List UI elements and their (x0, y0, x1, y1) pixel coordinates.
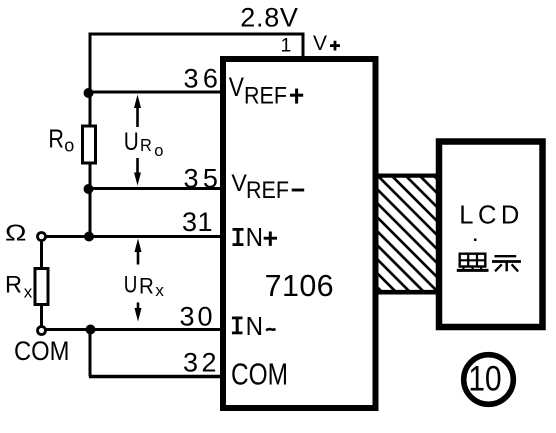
IC U1 7106 box (223, 59, 376, 408)
pin name IN+ (233, 224, 278, 252)
svg-text:R: R (5, 272, 22, 299)
svg-text:R: R (48, 123, 64, 153)
svg-text:R: R (140, 135, 152, 155)
pin name IN- (232, 313, 276, 341)
pin name VREF+ (229, 72, 303, 109)
pin number 30 (180, 302, 216, 332)
pin number 35 (184, 164, 223, 194)
pin number 36 (184, 64, 223, 94)
svg-text:32: 32 (183, 348, 220, 378)
label Rx (5, 272, 33, 302)
LCD display box (439, 142, 543, 328)
voltage arrow U_Rx (double arrow) (135, 239, 142, 322)
label Chinese "shi" (display) drawn strokes (492, 256, 521, 271)
node junction at VREF- wire (84, 184, 94, 194)
scan speck (474, 239, 477, 242)
hatched connector block (flex cable) (261, 171, 556, 321)
svg-text:35: 35 (184, 164, 223, 194)
resistor R0 (83, 126, 96, 163)
figure number 10 (circled) (464, 355, 514, 405)
label Ohm (5, 220, 27, 246)
svg-text:o: o (64, 135, 74, 155)
pin name VREF- (231, 170, 304, 204)
svg-text:10: 10 (468, 359, 502, 398)
label U_Rx (124, 271, 165, 300)
wire pin 32 (COM) (89, 375, 221, 379)
wire Rx branch vertical (40, 239, 43, 328)
svg-text:Ω: Ω (5, 220, 27, 246)
wire pin 35 (VREF-) (89, 187, 221, 190)
svg-text:x: x (155, 281, 164, 300)
terminal COM (open circle) (38, 327, 46, 335)
svg-text:U: U (124, 128, 139, 156)
svg-text:R: R (139, 274, 154, 299)
svg-text:31: 31 (182, 207, 213, 237)
label 2.8V (240, 2, 298, 32)
wire COM branch vertical (89, 330, 92, 377)
pin name COM (231, 358, 288, 392)
svg-text:36: 36 (184, 64, 223, 94)
svg-text:30: 30 (180, 302, 216, 332)
wire V+ supply (top) (90, 34, 303, 58)
label LCD (459, 201, 524, 229)
svg-text:N: N (246, 224, 263, 252)
wire pin 30 (IN-) (44, 328, 221, 331)
svg-text:1: 1 (281, 34, 292, 56)
node junction at IN+ wire (84, 232, 94, 242)
svg-text:COM: COM (14, 336, 70, 366)
svg-text:V: V (231, 170, 247, 197)
label Chinese "xian" (display) drawn strokes (457, 254, 489, 271)
pin label V+ (313, 32, 340, 55)
wire pin 31 (IN+) (44, 235, 221, 238)
label COM (left terminal) (14, 336, 70, 366)
svg-text:REF: REF (244, 82, 287, 109)
node junction at IN- wire (86, 325, 96, 335)
wire pin 36 (VREF+) (89, 91, 221, 94)
svg-text:U: U (124, 271, 138, 298)
node junction at VREF+ wire (84, 88, 94, 98)
svg-text:2.8V: 2.8V (240, 2, 298, 32)
svg-text:7106: 7106 (265, 269, 334, 303)
wire left vertical bus (89, 33, 92, 237)
svg-text:x: x (24, 282, 33, 301)
svg-text:N: N (246, 313, 263, 341)
voltage arrow U_R0 (double arrow) (134, 95, 141, 186)
svg-text:V: V (313, 32, 327, 55)
svg-text:COM: COM (231, 358, 288, 392)
resistor Rx (35, 269, 48, 305)
label U_R0 (124, 128, 164, 160)
terminal Ohm (open circle) (38, 233, 46, 241)
svg-text:LCD: LCD (459, 201, 524, 229)
pin number 31 (182, 207, 213, 237)
svg-text:REF: REF (246, 177, 289, 204)
IC part number 7106 (265, 269, 334, 303)
pin number 32 (183, 348, 220, 378)
svg-text:o: o (154, 142, 163, 160)
pin 1 number (281, 34, 292, 56)
label R0 (48, 123, 74, 155)
svg-text:V: V (229, 72, 244, 102)
